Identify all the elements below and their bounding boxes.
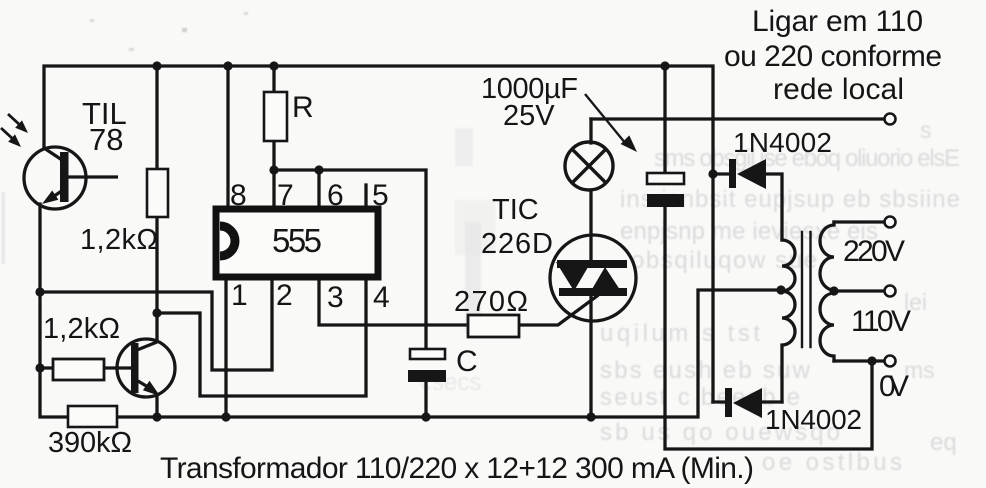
- wire pin 4 route to node (157,313): [157, 280, 366, 396]
- light arrow 1 into Q1: [8, 114, 21, 126]
- triac Q3 TIC226D body: [550, 235, 636, 321]
- diode D2 1N4002 cathode bar: [725, 388, 732, 417]
- Q1 emitter diagonal with arrow: [50, 190, 63, 199]
- wire pin 8 from top rail: [226, 66, 229, 206]
- svg-text:78: 78: [89, 122, 123, 157]
- label arrow from 1000uF text to capacitor: [585, 94, 626, 144]
- wire pin 3 to 270ohm resistor: [319, 280, 465, 325]
- terminal 110V: [885, 286, 896, 297]
- svg-text:eq: eq: [930, 429, 957, 456]
- wire 270ohm to triac gate diagonal: [519, 296, 597, 325]
- svg-text:1N4002: 1N4002: [733, 127, 832, 158]
- terminal 220V: [885, 217, 896, 228]
- wire Q2 base left segment from left rail to resistor: [40, 366, 56, 369]
- wire diode D1 branch from cathode node: [713, 174, 782, 240]
- wire 1000uF cap from top rail: [663, 66, 666, 173]
- svg-text:1,2kΩ: 1,2kΩ: [43, 313, 120, 345]
- Q2 collector diagonal: [137, 342, 157, 350]
- phototransistor Q1 TIL78 body: [24, 147, 86, 209]
- light arrow 2 into Q1: [1, 128, 14, 140]
- svg-text:sbs eush eb suw: sbs eush eb suw: [600, 357, 811, 384]
- Q1 base lead stub: [67, 175, 118, 178]
- node left rail / pin2: [35, 287, 44, 296]
- svg-text:555: 555: [272, 222, 322, 259]
- triac top bar MT2: [557, 260, 627, 268]
- svg-text:1,2kΩ: 1,2kΩ: [80, 224, 158, 256]
- wire diode D2 branch bottom: [713, 400, 782, 403]
- triac left triangle: [556, 262, 591, 291]
- wire R top from rail, R bottom to pin 7: [272, 66, 275, 206]
- capacitor C bottom plate: [408, 370, 446, 382]
- diode D1 1N4002 cathode bar: [729, 159, 736, 188]
- wire capacitor C bottom plate to ground rail: [424, 382, 427, 417]
- IC U1 555 body: [216, 209, 378, 277]
- terminal 0V: [885, 356, 896, 367]
- transformer core lines: [802, 232, 811, 347]
- wire pin 6 drop: [317, 170, 320, 206]
- wire 110V tap: [834, 289, 884, 292]
- svg-text:oe ostlbus: oe ostlbus: [762, 449, 902, 476]
- Q1 base bar: [60, 152, 69, 202]
- svg-text:1N4002: 1N4002: [765, 404, 862, 435]
- node pin7: [269, 165, 278, 174]
- capacitor 1000uF bottom plate: [647, 194, 684, 207]
- wire pin 5 stub: [364, 185, 367, 206]
- node diode D1 cathode: [708, 169, 717, 178]
- wire Q2 base resistor to base bar: [104, 366, 131, 369]
- triac right triangle: [588, 267, 624, 296]
- svg-text:8: 8: [230, 179, 247, 212]
- capacitor 1000uF top plate: [647, 173, 684, 184]
- svg-text:s: s: [920, 117, 932, 143]
- node left rail / Q2 base: [35, 363, 44, 372]
- svg-text:226D: 226D: [481, 228, 553, 260]
- svg-text:2: 2: [276, 279, 293, 312]
- svg-text:3: 3: [327, 281, 344, 314]
- node ground rail / pin1: [221, 412, 230, 421]
- node top rail / pin8: [223, 61, 232, 70]
- wire triac bottom to ground rail: [589, 295, 592, 417]
- svg-text:rede local: rede local: [773, 73, 904, 106]
- svg-text:R: R: [292, 91, 314, 124]
- svg-text:7: 7: [277, 179, 294, 212]
- transformer primary coil (right) with stubs: [820, 222, 834, 361]
- svg-text:Ligar em 110: Ligar em 110: [752, 5, 923, 38]
- wire 1000uF cap bottom, loop down right and up to 0V terminal: [665, 207, 872, 449]
- svg-text:220V: 220V: [843, 235, 905, 268]
- resistor R3 390k horizontal box in ground rail: [68, 406, 117, 427]
- wire pin 2 route to left rail node: [40, 280, 272, 370]
- node ground rail / triac: [586, 412, 595, 421]
- wire 220V tap: [834, 220, 884, 223]
- node top rail / R: [269, 61, 278, 70]
- scan specks: [182, 28, 187, 32]
- node top rail / 1000uF: [660, 61, 669, 70]
- svg-text:390kΩ: 390kΩ: [48, 427, 132, 459]
- diode D2 triangle: [733, 388, 762, 418]
- diode D1 triangle: [737, 159, 766, 189]
- Q2 base bar: [131, 343, 139, 393]
- svg-text:Transformador 110/220 x 12+12: Transformador 110/220 x 12+12 300 mA (Mi…: [160, 452, 754, 485]
- wire lamp bottom to triac top: [589, 190, 592, 262]
- svg-text:1: 1: [231, 279, 248, 312]
- svg-text:270Ω: 270Ω: [454, 286, 528, 318]
- node transformer 110V tap: [829, 286, 838, 295]
- svg-text:C: C: [456, 345, 478, 378]
- Q2 emitter diagonal with arrow: [138, 381, 148, 387]
- resistor R2 1,2k horizontal box (Q2 base): [53, 359, 104, 380]
- lamp X cross: [572, 149, 606, 183]
- svg-text:6: 6: [327, 179, 344, 212]
- wire left rail: Q1 emitter down, bottom ground rail to right end, up to transformer center tap: [40, 204, 780, 417]
- capacitor C top plate: [410, 349, 445, 359]
- terminal mains input: [885, 114, 896, 125]
- wire 0V tap: [834, 359, 884, 362]
- wire 1,2k (R1) branch from top rail down to node at (157,313): [155, 66, 158, 313]
- resistor R4 270ohm box: [468, 315, 519, 337]
- Q1 collector diagonal: [44, 148, 62, 160]
- node ground rail / C: [421, 412, 430, 421]
- svg-text:ou 220 conforme: ou 220 conforme: [724, 40, 942, 73]
- svg-text:25V: 25V: [503, 100, 555, 132]
- wire lamp vertical top: [589, 119, 592, 143]
- IC notch semicircle: [220, 226, 235, 256]
- svg-text:4: 4: [373, 281, 390, 314]
- node transformer center tap: [776, 285, 785, 294]
- transformer secondary coil (left): [782, 240, 795, 402]
- resistor R1 1,2k vertical box: [147, 169, 168, 217]
- node ground rail / Q2 emitter: [152, 412, 161, 421]
- svg-text:0V: 0V: [879, 370, 909, 403]
- wire node pin7 to pin6 to C capacitor top via right vertical: [274, 170, 426, 349]
- wire top supply rail with right branch down to diode D1/D2 cathodes: [44, 66, 713, 402]
- svg-text:TIC: TIC: [492, 194, 539, 226]
- node pin6: [314, 165, 323, 174]
- resistor R (top) box: [264, 92, 287, 141]
- lamp X1 body: [565, 142, 613, 190]
- Q2 emitter wire to rail: [155, 394, 158, 417]
- node top rail / R1: [152, 61, 161, 70]
- svg-text:5: 5: [372, 179, 389, 212]
- transistor Q2 body: [117, 339, 175, 397]
- wire pin 1 to ground rail: [224, 280, 227, 417]
- wire lamp top horizontal to mains terminal: [591, 117, 884, 120]
- svg-text:110V: 110V: [851, 305, 911, 338]
- node R1 / Q2 collector / pin4: [152, 308, 161, 317]
- triac bottom bar MT1: [559, 288, 627, 296]
- node 0V junction: [867, 356, 876, 365]
